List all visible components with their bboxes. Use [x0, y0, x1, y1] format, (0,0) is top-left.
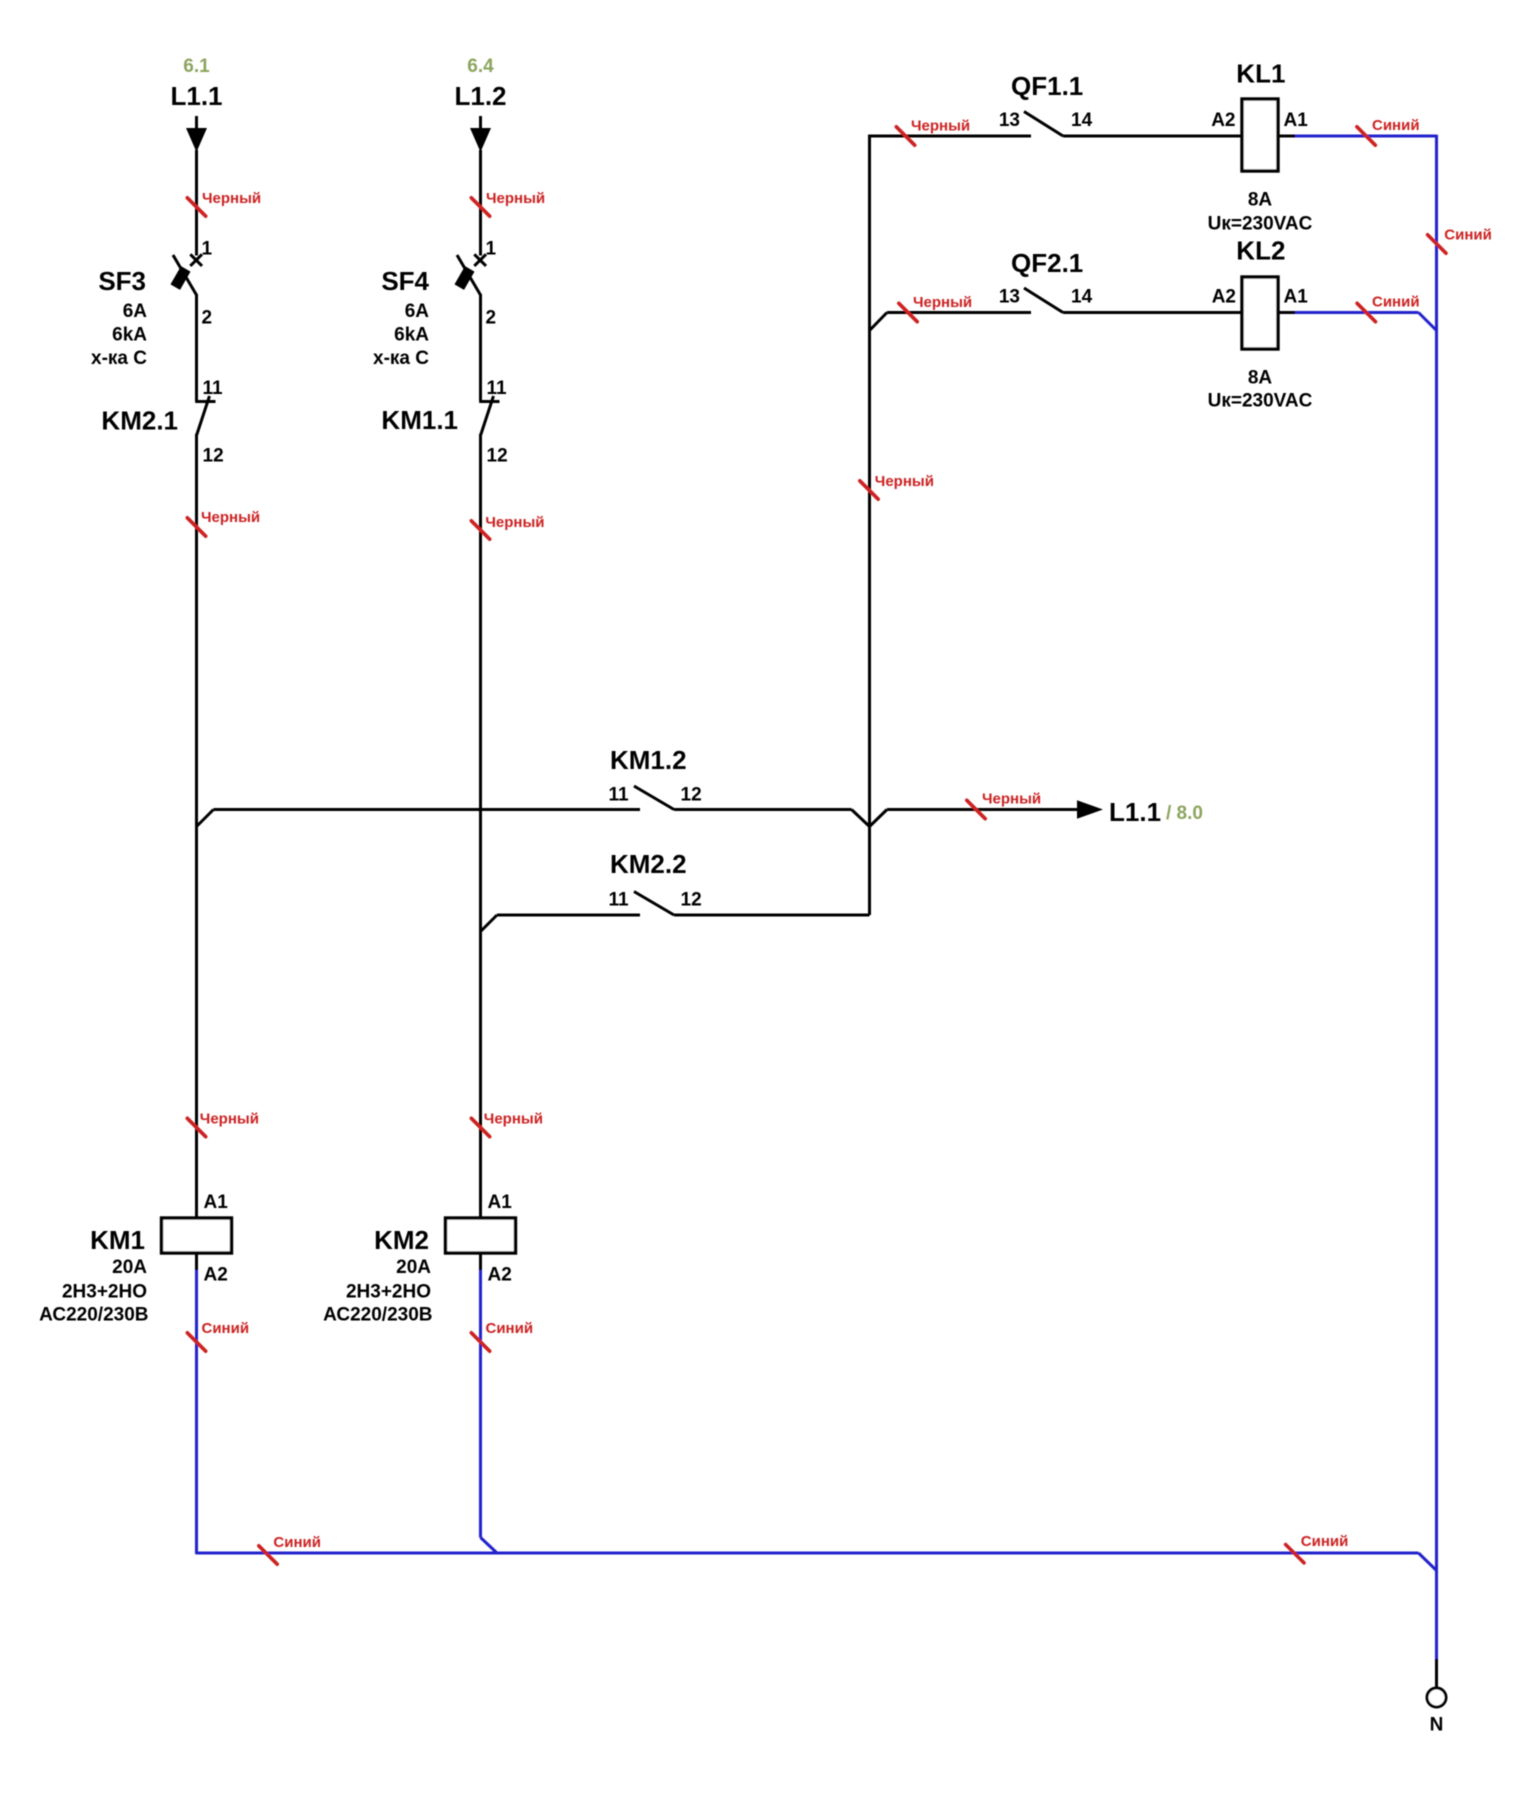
svg-text:8A: 8A — [1248, 190, 1273, 211]
svg-text:A1: A1 — [1284, 287, 1309, 308]
svg-text:KM2: KM2 — [374, 1225, 429, 1255]
svg-text:Синий: Синий — [1444, 227, 1492, 244]
svg-text:Uк=230VAC: Uк=230VAC — [1208, 391, 1313, 412]
svg-text:11: 11 — [487, 378, 508, 399]
svg-text:11: 11 — [609, 785, 630, 806]
svg-text:2Н3+2НО: 2Н3+2НО — [62, 1282, 147, 1303]
svg-text:6A: 6A — [405, 301, 430, 322]
svg-text:Синий: Синий — [273, 1534, 321, 1551]
svg-text:A1: A1 — [1284, 110, 1309, 131]
svg-text:2: 2 — [486, 308, 497, 329]
svg-text:KL1: KL1 — [1236, 59, 1285, 89]
svg-text:Черный: Черный — [486, 190, 545, 207]
svg-text:11: 11 — [609, 890, 630, 911]
svg-text:6kA: 6kA — [112, 325, 147, 346]
svg-text:KM2.2: KM2.2 — [610, 849, 687, 879]
svg-text:QF2.1: QF2.1 — [1011, 248, 1083, 278]
svg-text:A2: A2 — [1212, 287, 1236, 308]
svg-text:Черный: Черный — [875, 473, 934, 490]
svg-text:A1: A1 — [204, 1192, 229, 1213]
svg-text:Черный: Черный — [202, 190, 261, 207]
svg-text:АС220/230В: АС220/230В — [39, 1305, 148, 1326]
svg-text:A1: A1 — [488, 1192, 513, 1213]
svg-text:N: N — [1430, 1715, 1444, 1736]
svg-text:SF3: SF3 — [98, 266, 146, 296]
svg-text:/ 8.0: / 8.0 — [1166, 803, 1203, 824]
svg-text:11: 11 — [203, 378, 224, 399]
svg-text:8A: 8A — [1248, 368, 1273, 389]
svg-text:1: 1 — [202, 239, 213, 260]
svg-text:13: 13 — [999, 287, 1020, 308]
svg-text:20A: 20A — [112, 1257, 147, 1278]
svg-text:KM1.1: KM1.1 — [381, 405, 458, 435]
svg-text:6.4: 6.4 — [467, 56, 494, 77]
svg-text:2Н3+2НО: 2Н3+2НО — [346, 1282, 431, 1303]
svg-text:L1.1: L1.1 — [170, 81, 222, 111]
svg-text:Черный: Черный — [201, 509, 260, 526]
svg-text:2: 2 — [202, 308, 213, 329]
svg-text:12: 12 — [681, 890, 702, 911]
svg-text:12: 12 — [487, 446, 508, 467]
svg-text:L1.1: L1.1 — [1109, 797, 1161, 827]
svg-text:Черный: Черный — [200, 1111, 259, 1128]
svg-text:6A: 6A — [123, 301, 148, 322]
svg-text:KL2: KL2 — [1236, 236, 1285, 266]
svg-text:6.1: 6.1 — [183, 56, 210, 77]
svg-text:Синий: Синий — [202, 1320, 250, 1337]
svg-text:х-ка С: х-ка С — [91, 348, 147, 369]
svg-text:12: 12 — [203, 446, 224, 467]
svg-text:20A: 20A — [396, 1257, 431, 1278]
svg-text:Синий: Синий — [1372, 294, 1420, 311]
svg-text:A2: A2 — [1211, 110, 1235, 131]
svg-text:Uк=230VAC: Uк=230VAC — [1208, 214, 1313, 235]
svg-text:Синий: Синий — [486, 1320, 534, 1337]
svg-text:Черный: Черный — [484, 1111, 543, 1128]
svg-text:SF4: SF4 — [381, 266, 429, 296]
svg-text:KM1: KM1 — [90, 1225, 145, 1255]
svg-text:A2: A2 — [204, 1265, 228, 1286]
svg-text:12: 12 — [681, 785, 702, 806]
svg-text:KM1.2: KM1.2 — [610, 745, 687, 775]
svg-text:14: 14 — [1071, 110, 1093, 131]
svg-text:KM2.1: KM2.1 — [101, 406, 178, 436]
svg-text:х-ка С: х-ка С — [373, 348, 429, 369]
svg-text:1: 1 — [486, 239, 497, 260]
svg-text:6kA: 6kA — [394, 325, 429, 346]
svg-text:Черный: Черный — [982, 791, 1041, 808]
svg-text:Синий: Синий — [1372, 117, 1420, 134]
svg-text:Черный: Черный — [913, 294, 972, 311]
svg-text:14: 14 — [1071, 287, 1093, 308]
svg-text:A2: A2 — [488, 1265, 512, 1286]
svg-text:QF1.1: QF1.1 — [1011, 71, 1083, 101]
svg-text:L1.2: L1.2 — [454, 81, 506, 111]
svg-text:13: 13 — [999, 110, 1020, 131]
svg-text:Черный: Черный — [485, 514, 544, 531]
svg-text:Синий: Синий — [1301, 1533, 1349, 1550]
svg-text:Черный: Черный — [911, 118, 970, 135]
svg-text:АС220/230В: АС220/230В — [323, 1305, 432, 1326]
